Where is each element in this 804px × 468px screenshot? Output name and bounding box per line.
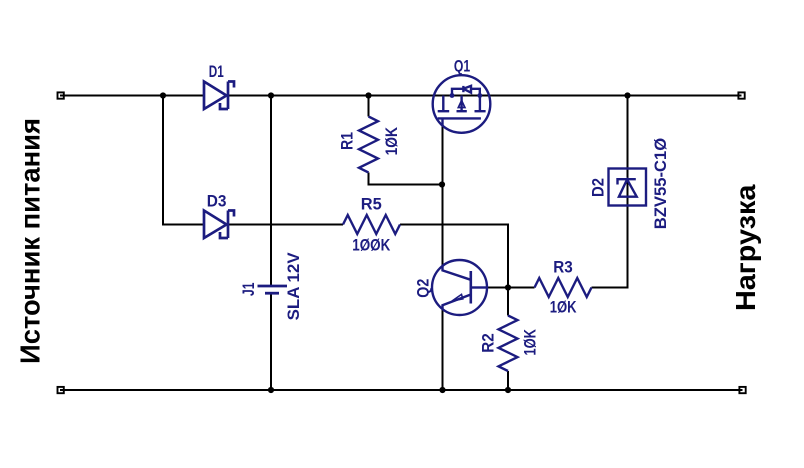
svg-text:R2: R2 [479,333,498,353]
svg-text:Источник питания: Источник питания [14,118,45,364]
svg-text:R1: R1 [338,132,357,150]
svg-text:J1: J1 [239,283,258,297]
svg-text:1ØK: 1ØK [382,126,401,155]
svg-text:BZV55-C1Ø: BZV55-C1Ø [651,138,670,230]
svg-text:D1: D1 [209,62,224,81]
svg-text:Нагрузка: Нагрузка [730,184,761,311]
svg-text:Q1: Q1 [454,57,470,76]
svg-text:SLA 12V: SLA 12V [284,252,303,321]
svg-text:1ØK: 1ØK [550,298,577,317]
svg-text:1ØK: 1ØK [520,329,539,356]
svg-text:1ØØK: 1ØØK [352,236,391,255]
svg-text:D3: D3 [207,191,227,210]
svg-text:D2: D2 [589,178,608,197]
svg-text:R5: R5 [361,195,382,214]
svg-text:Q2: Q2 [414,279,433,298]
svg-text:R3: R3 [553,258,573,277]
